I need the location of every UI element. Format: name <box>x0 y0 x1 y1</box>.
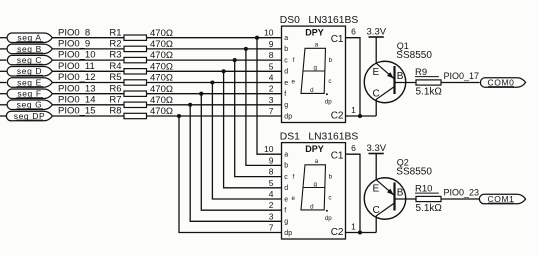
svg-text:PIO0_13: PIO0_13 <box>58 83 96 94</box>
svg-text:f: f <box>293 173 295 180</box>
svg-text:C2: C2 <box>331 111 344 122</box>
wire PIO0_12: port seg E to R5 to DS0 pin 4 <box>52 82 281 84</box>
port seg A <box>7 33 52 43</box>
svg-text:1: 1 <box>351 105 356 115</box>
svg-text:c: c <box>284 174 288 181</box>
svg-text:C2: C2 <box>331 227 344 238</box>
port seg C <box>7 55 52 65</box>
wire PIO0_8: port seg A to R1 to DS0 pin 10 <box>52 37 281 39</box>
svg-text:a: a <box>284 35 288 42</box>
junction PIO0_11 / bus drop <box>222 69 226 73</box>
port seg B <box>7 44 52 54</box>
svg-text:d: d <box>284 69 288 76</box>
svg-text:1: 1 <box>351 221 356 231</box>
svg-text:DPY: DPY <box>305 28 324 38</box>
junction DS0 C1/C2 common <box>358 114 362 118</box>
svg-text:f: f <box>284 208 286 215</box>
svg-text:seg B: seg B <box>17 44 42 54</box>
svg-text:5: 5 <box>269 178 274 188</box>
wire 3.3V to Q1 emitter <box>375 37 377 63</box>
svg-text:g: g <box>313 64 317 71</box>
svg-text:c: c <box>284 57 288 64</box>
port seg DP <box>6 111 52 121</box>
svg-text:a: a <box>284 152 288 159</box>
svg-text:seg F: seg F <box>17 89 41 99</box>
wire PIO0_10 stub to sheet edge <box>0 59 7 61</box>
resistor R8 <box>109 106 146 119</box>
svg-text:R7: R7 <box>109 94 121 105</box>
svg-text:E: E <box>373 184 380 195</box>
svg-text:9: 9 <box>269 39 274 49</box>
svg-text:R4: R4 <box>109 61 121 72</box>
svg-text:dp: dp <box>325 215 332 222</box>
svg-text:seg G: seg G <box>17 100 43 110</box>
svg-text:b: b <box>329 57 333 64</box>
svg-text:B: B <box>397 71 404 82</box>
svg-text:470Ω: 470Ω <box>150 106 173 117</box>
svg-text:d: d <box>310 87 314 94</box>
svg-text:470Ω: 470Ω <box>150 73 173 84</box>
svg-text:7: 7 <box>269 106 274 116</box>
wire PIO0_13 stub to sheet edge <box>0 93 7 95</box>
svg-text:SS8550: SS8550 <box>396 167 432 178</box>
svg-text:470Ω: 470Ω <box>150 61 173 72</box>
svg-text:COM0: COM0 <box>488 77 515 87</box>
svg-text:9: 9 <box>269 155 274 165</box>
transistor Q1 (SS8550 PNP) <box>364 61 406 103</box>
svg-text:R8: R8 <box>109 106 121 117</box>
svg-text:c: c <box>328 78 331 85</box>
wire PIO0_14: port seg G to R7 to DS0 pin 3 <box>52 104 281 106</box>
svg-text:seg D: seg D <box>17 66 42 76</box>
svg-text:470Ω: 470Ω <box>150 84 173 95</box>
svg-text:PIO0_15: PIO0_15 <box>58 106 96 117</box>
svg-text:e: e <box>291 79 295 86</box>
svg-text:g: g <box>284 102 288 109</box>
wire PIO0_10 bus drop to DS1 pin 8 <box>235 60 282 177</box>
svg-text:C1: C1 <box>331 34 344 45</box>
svg-text:4: 4 <box>269 73 274 83</box>
junction DS1 C1/C2 common <box>358 230 362 234</box>
svg-text:10: 10 <box>264 144 274 154</box>
svg-text:R2: R2 <box>109 39 121 50</box>
resistor R7 <box>109 94 146 107</box>
svg-text:R3: R3 <box>109 50 121 61</box>
svg-text:a: a <box>315 41 319 48</box>
wire R9 to port COM0 <box>441 82 480 84</box>
wire DS0 pin 1 to transistor collector <box>346 115 377 117</box>
7-segment display DS1 LN3161BS <box>282 143 346 239</box>
wire 3.3V to Q2 emitter <box>375 154 377 180</box>
junction PIO0_9 / bus drop <box>244 47 248 51</box>
svg-text:3.3V: 3.3V <box>367 27 387 38</box>
svg-text:C: C <box>373 88 380 99</box>
resistor R1 <box>109 27 146 40</box>
wire PIO0_13 bus drop to DS1 pin 2 <box>201 94 281 211</box>
wire Q2 collector down to C2 net <box>375 216 377 233</box>
svg-text:e: e <box>284 196 288 203</box>
wire PIO0_9 stub to sheet edge <box>0 48 7 50</box>
port seg G <box>7 100 52 110</box>
svg-text:4: 4 <box>269 189 274 199</box>
svg-text:DS0: DS0 <box>280 15 300 26</box>
wire PIO0_13: port seg F to R6 to DS0 pin 2 <box>52 93 281 95</box>
svg-text:DPY: DPY <box>305 144 324 154</box>
wire PIO0_14 bus drop to DS1 pin 3 <box>190 105 281 222</box>
svg-text:seg C: seg C <box>17 55 42 65</box>
svg-text:PIO0_17: PIO0_17 <box>444 71 480 81</box>
resistor R2 <box>109 39 146 52</box>
resistor R9 <box>415 67 441 85</box>
svg-text:e: e <box>284 80 288 87</box>
wire PIO0_15 bus drop to DS1 pin 7 <box>179 116 282 233</box>
svg-text:LN3161BS: LN3161BS <box>308 131 358 142</box>
svg-text:3: 3 <box>269 211 274 221</box>
digit glyph (DS1) <box>291 158 332 222</box>
svg-text:f: f <box>284 91 286 98</box>
svg-text:8: 8 <box>269 167 274 177</box>
wire PIO0_12 bus drop to DS1 pin 4 <box>212 83 281 200</box>
svg-text:b: b <box>284 46 288 53</box>
wire PIO0_11: port seg D to R4 to DS0 pin 5 <box>52 70 281 72</box>
svg-text:PIO0_14: PIO0_14 <box>58 94 96 105</box>
svg-text:d: d <box>310 203 314 210</box>
resistor R5 <box>109 72 146 85</box>
wire Q1 base to R9 <box>395 82 417 84</box>
junction PIO0_14 / bus drop <box>188 103 192 107</box>
wire PIO0_11 bus drop to DS1 pin 5 <box>224 71 282 188</box>
svg-text:b: b <box>329 173 333 180</box>
svg-text:470Ω: 470Ω <box>150 50 173 61</box>
svg-text:c: c <box>328 195 331 202</box>
svg-text:5: 5 <box>269 61 274 71</box>
svg-text:SS8550: SS8550 <box>396 50 432 61</box>
svg-text:LN3161BS: LN3161BS <box>308 15 358 26</box>
wire R10 to port COM1 <box>441 198 480 200</box>
port COM0 <box>480 77 525 87</box>
wire PIO0_9: port seg B to R2 to DS0 pin 9 <box>52 48 281 50</box>
junction PIO0_10 / bus drop <box>233 58 237 62</box>
power 3.3V (Q2 emitter) <box>367 143 387 154</box>
svg-text:2: 2 <box>269 200 274 210</box>
svg-text:COM1: COM1 <box>488 194 515 204</box>
svg-text:2: 2 <box>269 84 274 94</box>
svg-text:6: 6 <box>351 143 356 153</box>
svg-text:7: 7 <box>269 223 274 233</box>
svg-text:3: 3 <box>269 95 274 105</box>
svg-text:470Ω: 470Ω <box>150 28 173 39</box>
svg-text:g: g <box>313 181 317 188</box>
wire DS0 pin 6 to common node <box>346 38 361 116</box>
junction PIO0_15 / bus drop <box>177 114 181 118</box>
svg-text:E: E <box>373 67 380 78</box>
svg-text:5.1kΩ: 5.1kΩ <box>416 203 443 214</box>
junction PIO0_13 / bus drop <box>199 92 203 96</box>
wire PIO0_11 stub to sheet edge <box>0 70 7 72</box>
port seg F <box>7 89 52 99</box>
digit glyph (DS0) <box>291 41 332 105</box>
svg-text:PIO0_12: PIO0_12 <box>58 72 96 83</box>
resistor R10 <box>415 183 441 201</box>
svg-text:R6: R6 <box>109 83 121 94</box>
svg-text:3.3V: 3.3V <box>367 143 387 154</box>
svg-text:470Ω: 470Ω <box>150 95 173 106</box>
svg-text:DS1: DS1 <box>280 131 300 142</box>
wire Q2 base to R10 <box>395 198 417 200</box>
svg-text:8: 8 <box>269 50 274 60</box>
svg-text:seg DP: seg DP <box>14 111 45 121</box>
svg-text:f: f <box>293 57 295 64</box>
power 3.3V (Q1 emitter) <box>367 27 387 38</box>
pin name labels a-dp (DS0) <box>284 35 292 120</box>
7-segment display DS0 LN3161BS <box>282 26 346 122</box>
resistor R4 <box>109 61 146 74</box>
svg-text:PIO0_10: PIO0_10 <box>58 50 96 61</box>
wire PIO0_15: port seg DP to R8 to DS0 pin 7 <box>52 115 281 117</box>
svg-text:dp: dp <box>284 230 292 237</box>
svg-text:g: g <box>284 219 288 226</box>
svg-text:d: d <box>284 185 288 192</box>
port seg D <box>7 66 52 76</box>
port COM1 <box>479 194 525 204</box>
wire DS1 pin 1 to transistor collector <box>346 232 377 234</box>
svg-text:seg E: seg E <box>17 77 42 87</box>
wire PIO0_8 bus drop to DS1 pin 10 <box>257 38 282 155</box>
svg-text:R5: R5 <box>109 72 121 83</box>
svg-text:B: B <box>397 188 404 199</box>
svg-text:470Ω: 470Ω <box>150 39 173 50</box>
wire PIO0_9 bus drop to DS1 pin 9 <box>246 49 282 165</box>
svg-text:C1: C1 <box>331 151 344 162</box>
svg-text:b: b <box>284 163 288 170</box>
port seg E <box>7 77 52 87</box>
svg-text:seg A: seg A <box>17 33 41 43</box>
svg-text:10: 10 <box>264 28 274 38</box>
svg-text:a: a <box>315 158 319 165</box>
wire PIO0_15 stub to sheet edge <box>0 115 7 117</box>
wire PIO0_12 stub to sheet edge <box>0 82 7 84</box>
wire PIO0_8 stub to sheet edge <box>0 37 7 39</box>
svg-text:5.1kΩ: 5.1kΩ <box>416 87 443 98</box>
svg-text:6: 6 <box>351 27 356 37</box>
svg-text:dp: dp <box>325 98 332 105</box>
resistor R3 <box>109 50 146 63</box>
wire PIO0_14 stub to sheet edge <box>0 104 7 106</box>
svg-text:PIO0_9: PIO0_9 <box>58 39 90 50</box>
svg-text:PIO0_11: PIO0_11 <box>58 61 95 72</box>
wire PIO0_10: port seg C to R3 to DS0 pin 8 <box>52 59 281 61</box>
svg-text:PIO0_8: PIO0_8 <box>58 27 90 38</box>
transistor Q2 (SS8550 PNP) <box>364 178 406 220</box>
wire DS1 pin 6 to common node <box>346 154 361 232</box>
pin name labels a-dp (DS1) <box>284 152 292 237</box>
junction PIO0_8 / bus drop <box>255 36 259 40</box>
svg-text:PIO0_23: PIO0_23 <box>444 188 480 198</box>
junction PIO0_12 / bus drop <box>210 80 214 84</box>
svg-text:R1: R1 <box>109 27 121 38</box>
svg-text:e: e <box>291 195 295 202</box>
svg-text:dp: dp <box>284 113 292 120</box>
svg-text:C: C <box>373 205 380 216</box>
resistor R6 <box>109 83 146 96</box>
wire Q1 collector down to C2 net <box>375 99 377 116</box>
